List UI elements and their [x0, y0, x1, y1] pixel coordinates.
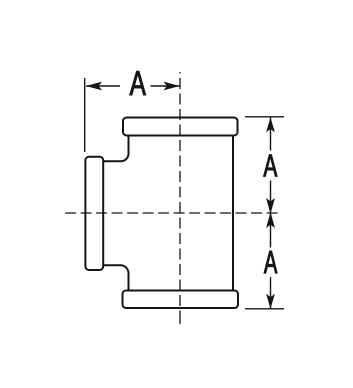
bottom extension line right: [245, 308, 284, 310]
vertical centerline: [179, 72, 181, 325]
top dimension line right segment: [151, 85, 180, 87]
arrowhead up at centerline lower: [266, 212, 275, 228]
arrowhead up at top extension: [266, 117, 275, 132]
right dimension line lower segment a: [270, 214, 272, 248]
label A top dimension: [130, 71, 146, 95]
arrowhead down at bottom extension: [266, 294, 275, 309]
arrowhead left of top dimension: [86, 82, 102, 91]
bottom flange band: [123, 291, 239, 309]
right dimension line lower segment b: [270, 277, 272, 309]
top extension line right: [245, 116, 284, 118]
vertical centerline bottom dash tail: [179, 321, 181, 325]
branch flange band: [85, 157, 103, 270]
arrowhead right of top dimension: [164, 82, 180, 91]
tee fitting left body edge with upper fillet into branch: [103, 136, 129, 162]
label A lower right dimension: [264, 251, 277, 273]
top dimension line left segment: [86, 85, 120, 87]
right dimension line upper segment a: [270, 117, 272, 150]
left extension line: [84, 78, 86, 152]
label A upper right dimension: [263, 154, 277, 176]
top flange band: [123, 118, 238, 136]
tee fitting branch bottom edge with lower fillet into body: [103, 265, 129, 290]
horizontal centerline: [64, 212, 279, 214]
tee fitting right body edge: [232, 136, 234, 291]
arrowhead down at centerline upper: [266, 198, 275, 214]
right dimension line upper segment b: [270, 181, 272, 213]
